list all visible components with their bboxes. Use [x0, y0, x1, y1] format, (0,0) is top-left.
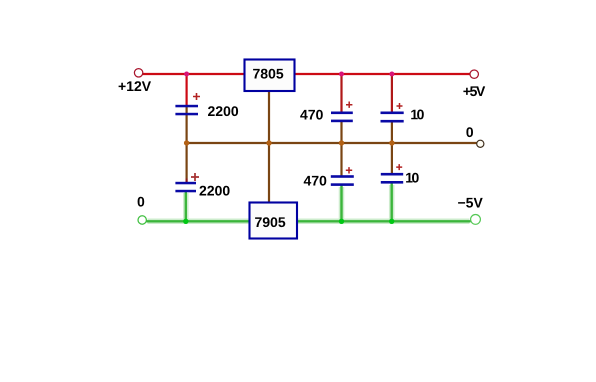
junction: node A red at C1 column — [184, 72, 189, 77]
wire: dark red C2 plus lead — [186, 179, 188, 183]
regulator U2 7905 — [250, 203, 298, 239]
wire: brown C1 bottom to bus — [186, 107, 188, 143]
junction: red at C3 column — [339, 72, 344, 77]
value label 2200 top — [208, 106, 238, 116]
wire: brown 0V bus — [187, 142, 477, 144]
wire: brown bus to C6 top — [391, 143, 393, 174]
terminal: +12V input — [134, 69, 142, 77]
capacitor C4 10uF top — [381, 112, 404, 123]
capacitor C2 2200uF bottom — [175, 182, 196, 193]
wire: green C2 bottom to bus — [185, 192, 187, 222]
wire: green C5 bottom to bus — [340, 186, 342, 222]
wire: red drop to C3 — [340, 74, 342, 112]
value label 470 bottom — [304, 176, 327, 186]
value label 2200 bottom — [200, 186, 230, 196]
junction: green at C2 column — [183, 219, 188, 224]
capacitor C5 470uF bottom — [331, 175, 354, 186]
label: 0 right — [466, 127, 473, 137]
polarity plus C5 — [346, 167, 352, 173]
junction: red at C4 column — [389, 72, 394, 77]
regulator U1 7805 — [245, 60, 295, 92]
terminal: +5V output — [470, 70, 478, 78]
junction: brown at C3/C5 column — [339, 140, 344, 145]
wire: green -5V bus right segment — [298, 220, 471, 222]
polarity plus C3 — [346, 102, 352, 108]
terminal: 0V right — [477, 140, 484, 147]
terminal: -5V output — [471, 215, 481, 225]
capacitor C6 10uF bottom — [381, 173, 403, 184]
polarity plus C6 — [396, 164, 402, 170]
value label 10 bottom — [406, 173, 419, 183]
junction: brown at regulator column — [266, 140, 271, 145]
wire: green halo underlay — [148, 185, 470, 221]
wire: brown bus to C2 top — [186, 143, 188, 179]
wire: brown C4 bottom to bus — [391, 122, 393, 143]
wire: green C6 bottom to bus — [391, 184, 393, 222]
wire: brown 7805 out to bus to 7905 in — [268, 92, 270, 202]
label: 0 left — [138, 197, 145, 207]
value label 10 top — [411, 110, 424, 120]
label: -5V — [458, 198, 483, 208]
wire: red drop to C1 — [186, 74, 188, 106]
value label 470 top — [300, 110, 323, 120]
wire: brown C3 bottom to bus — [340, 122, 342, 143]
junction: brown at C4/C6 column — [389, 140, 394, 145]
polarity plus C1 — [193, 93, 200, 100]
capacitor C1 2200uF top — [175, 105, 198, 116]
junction: green at C6 column — [389, 219, 394, 224]
wire: red +5V bus right segment — [295, 73, 470, 75]
terminal: 0V left — [138, 216, 146, 224]
wire: red +12V bus left segment — [143, 73, 245, 75]
wire: brown bus to C5 top — [340, 143, 342, 177]
label: +12V — [119, 81, 151, 91]
label: +5V — [463, 86, 485, 96]
polarity plus C2 — [191, 173, 199, 181]
wire: red drop to C4 — [391, 74, 393, 112]
capacitor C3 470uF top — [331, 112, 353, 123]
polarity plus C4 — [397, 103, 403, 109]
wire: green -5V bus left segment — [147, 220, 250, 222]
junction: brown at C1/C2 column — [184, 140, 189, 145]
junction: green at C5 column — [339, 219, 344, 224]
